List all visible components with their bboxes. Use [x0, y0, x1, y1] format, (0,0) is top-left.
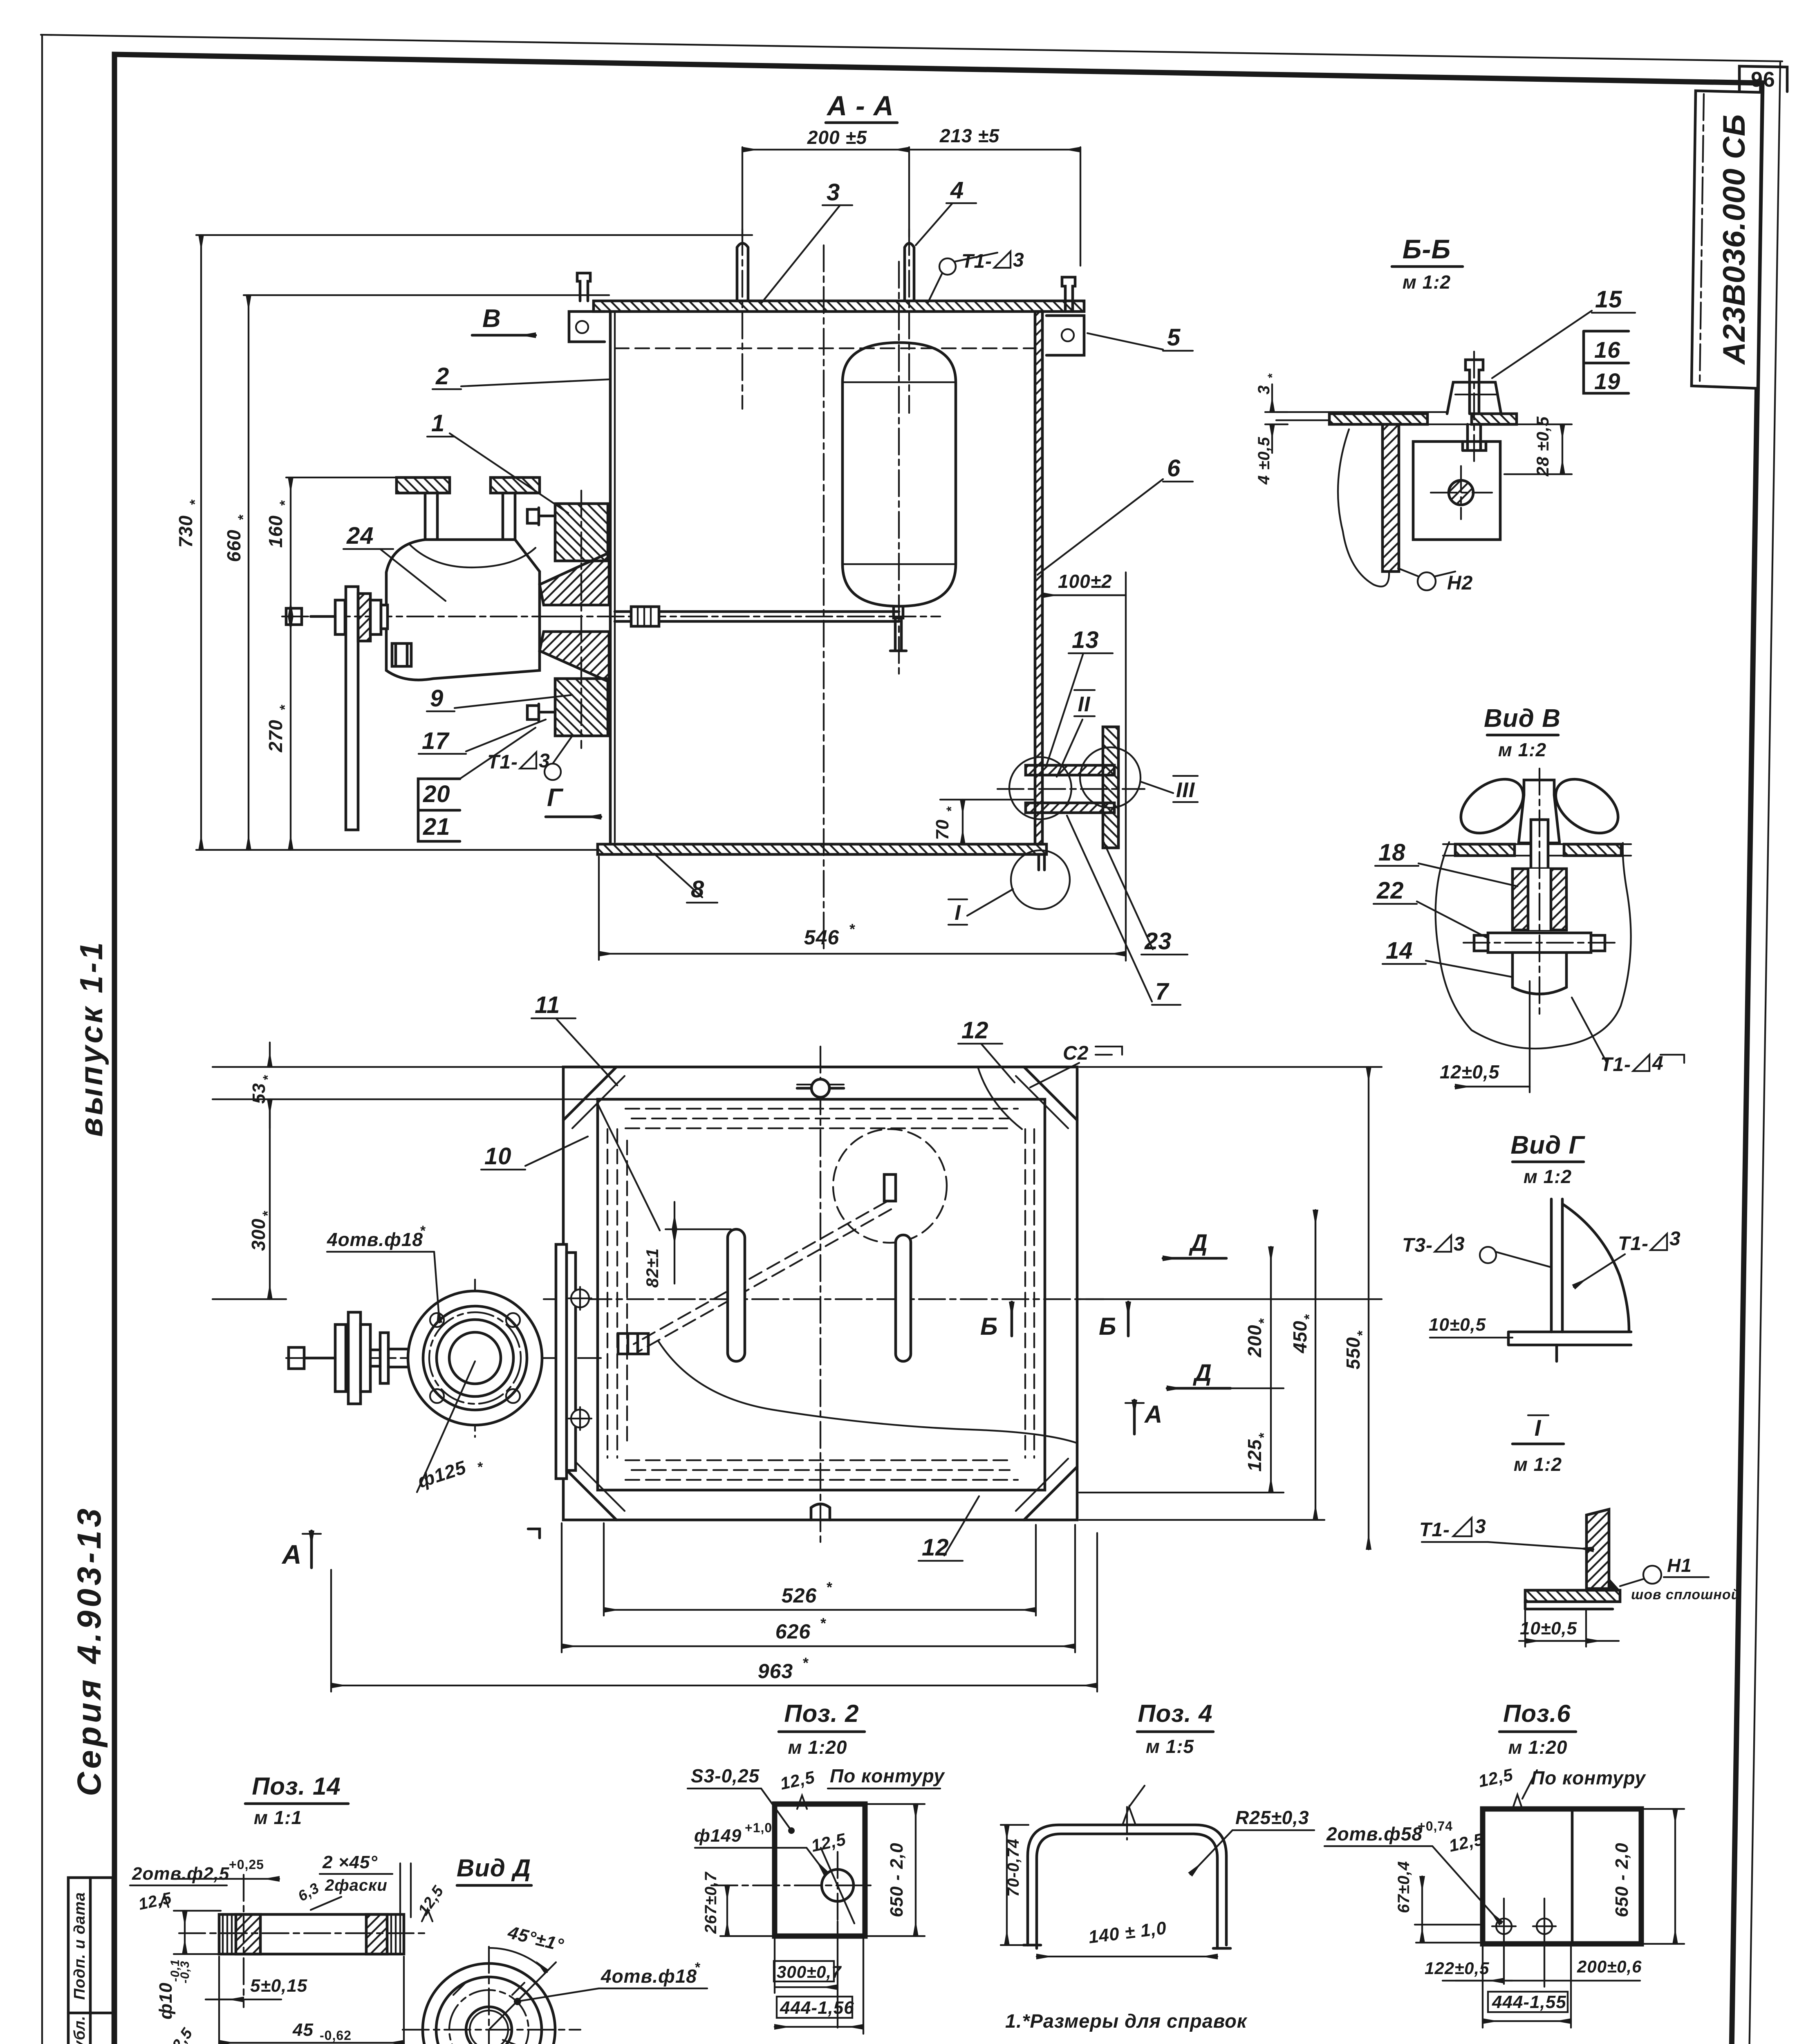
svg-text:200±0,6: 200±0,6	[1577, 1957, 1642, 1976]
svg-text:*: *	[1256, 1318, 1272, 1324]
svg-text:10: 10	[484, 1143, 512, 1170]
svg-text:Т1-: Т1-	[1419, 1519, 1450, 1541]
svg-text:Вид Г: Вид Г	[1510, 1131, 1585, 1159]
svg-text:*: *	[1266, 373, 1279, 378]
svg-text:4 ±0,5: 4 ±0,5	[1255, 437, 1273, 485]
svg-text:6: 6	[1167, 455, 1181, 482]
svg-text:21: 21	[423, 814, 450, 840]
svg-text:13: 13	[1072, 627, 1099, 653]
svg-text:м 1:2: м 1:2	[1524, 1166, 1572, 1187]
svg-text:12: 12	[961, 1017, 989, 1044]
svg-text:I: I	[955, 901, 961, 925]
svg-text:III: III	[1176, 778, 1195, 802]
svg-text:*: *	[803, 1654, 809, 1671]
svg-text:выпуск 1-1: выпуск 1-1	[73, 940, 109, 1137]
svg-text:По контуру: По контуру	[830, 1765, 945, 1786]
svg-text:450: 450	[1289, 1320, 1311, 1354]
svg-text:11: 11	[535, 992, 560, 1018]
svg-text:м 1:20: м 1:20	[788, 1737, 847, 1758]
svg-text:*: *	[849, 921, 856, 937]
svg-text:300: 300	[248, 1218, 269, 1251]
svg-text:Инв.N дубл.: Инв.N дубл.	[71, 2015, 88, 2044]
svg-text:4: 4	[950, 177, 964, 204]
svg-text:м 1:2: м 1:2	[1514, 1454, 1562, 1475]
svg-text:Серия 4.903-13: Серия 4.903-13	[71, 1505, 108, 1796]
svg-text:м 1:1: м 1:1	[254, 1807, 302, 1828]
svg-text:213 ±5: 213 ±5	[939, 125, 1000, 146]
svg-text:200 ±5: 200 ±5	[807, 127, 867, 148]
svg-text:м 1:5: м 1:5	[1146, 1736, 1194, 1757]
svg-text:В: В	[482, 305, 501, 333]
svg-text:С2: С2	[1063, 1042, 1089, 1064]
svg-text:4: 4	[1652, 1053, 1664, 1074]
svg-text:*: *	[1355, 1330, 1370, 1336]
svg-text:18: 18	[1378, 839, 1406, 866]
svg-text:660: 660	[223, 529, 244, 562]
svg-text:Подп. и дата: Подп. и дата	[71, 1892, 88, 2000]
svg-text:19: 19	[1594, 368, 1620, 394]
svg-text:17: 17	[422, 728, 450, 754]
svg-text:22: 22	[1376, 877, 1404, 904]
svg-text:5: 5	[1167, 324, 1181, 351]
svg-text:шов сплошной: шов сплошной	[1631, 1587, 1740, 1602]
svg-text:м 1:20: м 1:20	[1508, 1737, 1568, 1758]
svg-text:Поз.6: Поз.6	[1503, 1700, 1571, 1727]
svg-text:*: *	[260, 1075, 275, 1080]
svg-text:м 1:2: м 1:2	[1403, 271, 1451, 293]
svg-text:Б: Б	[1099, 1313, 1116, 1340]
svg-text:5±0,15: 5±0,15	[250, 1976, 307, 1996]
svg-text:-0,62: -0,62	[320, 2028, 352, 2043]
svg-text:730: 730	[175, 515, 196, 548]
svg-text:650 - 2,0: 650 - 2,0	[1612, 1842, 1632, 1917]
svg-text:12±0,5: 12±0,5	[1440, 1061, 1500, 1083]
svg-text:Поз. 4: Поз. 4	[1138, 1700, 1212, 1727]
svg-text:II: II	[1078, 693, 1091, 716]
svg-text:526: 526	[782, 1584, 817, 1607]
svg-text:*: *	[1302, 1314, 1317, 1320]
svg-text:28 ±0,5: 28 ±0,5	[1533, 416, 1552, 477]
svg-text:963: 963	[758, 1660, 793, 1683]
svg-text:45: 45	[292, 2020, 314, 2040]
svg-text:ф10: ф10	[156, 1982, 176, 2019]
svg-text:650 - 2,0: 650 - 2,0	[887, 1842, 907, 1917]
svg-text:А - А: А - А	[826, 90, 894, 121]
svg-text:+1,0: +1,0	[745, 1820, 772, 1835]
svg-text:2отв.ф58: 2отв.ф58	[1326, 1823, 1423, 1845]
svg-text:96: 96	[1751, 68, 1775, 92]
svg-text:*: *	[420, 1223, 426, 1239]
svg-text:1: 1	[431, 410, 445, 437]
svg-text:9: 9	[430, 685, 444, 712]
svg-text:200: 200	[1244, 1325, 1265, 1358]
svg-text:20: 20	[423, 781, 450, 807]
svg-text:I: I	[1535, 1415, 1542, 1441]
svg-text:3: 3	[1669, 1228, 1681, 1250]
svg-text:Вид В: Вид В	[1484, 704, 1561, 733]
svg-text:550: 550	[1342, 1337, 1364, 1369]
svg-text:16: 16	[1594, 337, 1620, 363]
svg-text:122±0,5: 122±0,5	[1425, 1959, 1490, 1978]
svg-text:А23В036.000 СБ: А23В036.000 СБ	[1717, 114, 1752, 365]
svg-text:160: 160	[265, 515, 286, 548]
svg-text:*: *	[820, 1615, 827, 1632]
svg-text:Т1-: Т1-	[1618, 1233, 1649, 1255]
svg-text:10±0,5: 10±0,5	[1429, 1315, 1486, 1335]
svg-text:*: *	[260, 1210, 276, 1216]
svg-text:м 1:2: м 1:2	[1498, 739, 1546, 760]
svg-text:53: 53	[249, 1083, 269, 1104]
svg-text:4отв.ф18: 4отв.ф18	[327, 1229, 423, 1250]
svg-text:546: 546	[804, 926, 840, 949]
svg-text:R25±0,3: R25±0,3	[1235, 1807, 1309, 1828]
svg-text:626: 626	[775, 1620, 811, 1643]
svg-text:67±0,4: 67±0,4	[1395, 1861, 1413, 1913]
svg-text:4отв.ф18: 4отв.ф18	[601, 1966, 697, 1987]
svg-text:*: *	[1256, 1432, 1272, 1438]
svg-text:Б: Б	[980, 1313, 998, 1340]
svg-text:*: *	[827, 1579, 833, 1596]
svg-text:300±0,7: 300±0,7	[777, 1962, 842, 1981]
svg-text:10±0,5: 10±0,5	[1520, 1618, 1577, 1638]
svg-text:3: 3	[1013, 249, 1024, 271]
svg-text:+0,25: +0,25	[229, 1857, 264, 1872]
svg-text:Н2: Н2	[1447, 572, 1473, 594]
svg-text:70: 70	[932, 819, 952, 840]
svg-text:1.*Размеры для справок: 1.*Размеры для справок	[1005, 2010, 1248, 2032]
svg-text:*: *	[235, 514, 251, 520]
svg-text:Поз. 14: Поз. 14	[252, 1773, 341, 1800]
svg-text:444-1,56: 444-1,56	[780, 1998, 854, 2018]
svg-text:444-1,55: 444-1,55	[1492, 1992, 1566, 2012]
svg-text:267±0,7: 267±0,7	[702, 1871, 720, 1934]
svg-text:2отв.ф2,5: 2отв.ф2,5	[132, 1864, 229, 1884]
svg-text:S3-0,25: S3-0,25	[691, 1765, 760, 1786]
svg-text:Поз. 2: Поз. 2	[784, 1700, 859, 1727]
svg-text:3: 3	[1255, 385, 1273, 394]
svg-text:3: 3	[1454, 1233, 1465, 1255]
svg-text:Б-Б: Б-Б	[1403, 234, 1451, 264]
svg-text:2: 2	[435, 363, 449, 390]
svg-text:Д: Д	[1192, 1360, 1212, 1386]
svg-text:3: 3	[1475, 1516, 1486, 1537]
svg-text:14: 14	[1386, 937, 1413, 964]
svg-text:Т1-: Т1-	[1600, 1054, 1631, 1076]
svg-text:100±2: 100±2	[1058, 571, 1112, 592]
svg-text:270: 270	[265, 719, 286, 753]
svg-text:7: 7	[1155, 978, 1170, 1005]
svg-text:Н1: Н1	[1667, 1555, 1692, 1576]
svg-text:*: *	[277, 704, 293, 710]
svg-text:Г: Г	[547, 784, 564, 812]
svg-text:А: А	[1144, 1401, 1163, 1428]
svg-text:2 ×45°: 2 ×45°	[322, 1852, 378, 1872]
svg-text:82±1: 82±1	[643, 1248, 662, 1288]
svg-text:По контуру: По контуру	[1531, 1767, 1646, 1788]
svg-text:24: 24	[346, 522, 374, 549]
svg-text:Д: Д	[1188, 1230, 1208, 1256]
svg-text:+0,74: +0,74	[1418, 1819, 1453, 1833]
svg-text:-0,3: -0,3	[178, 1961, 192, 1983]
svg-text:15: 15	[1595, 286, 1622, 313]
svg-text:3: 3	[827, 179, 840, 206]
svg-text:125: 125	[1244, 1439, 1265, 1472]
svg-text:Т1-: Т1-	[487, 751, 518, 773]
svg-text:Вид Д: Вид Д	[457, 1854, 531, 1882]
svg-text:ф149: ф149	[694, 1826, 742, 1846]
svg-text:*: *	[944, 806, 959, 811]
svg-text:2фаски: 2фаски	[325, 1876, 388, 1894]
svg-text:*: *	[187, 499, 203, 505]
svg-text:12: 12	[922, 1534, 949, 1561]
svg-text:Т3-: Т3-	[1402, 1235, 1433, 1256]
svg-text:А: А	[281, 1539, 302, 1569]
svg-text:*: *	[277, 500, 293, 506]
svg-text:*: *	[477, 1459, 483, 1475]
svg-text:*: *	[695, 1960, 701, 1975]
